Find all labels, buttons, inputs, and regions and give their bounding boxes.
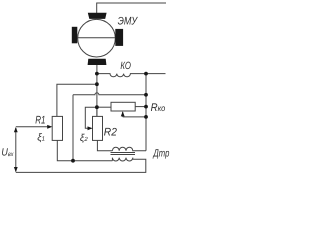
node KO junction bbox=[95, 72, 99, 76]
wire R2 bottom bbox=[97, 140, 112, 150]
transformer Dtr top winding bbox=[112, 147, 146, 151]
arrow Uin up bbox=[14, 127, 18, 132]
node rail-wiper bbox=[144, 115, 148, 119]
wire brush to node A bbox=[96, 65, 98, 117]
svg-text:КО: КО bbox=[120, 60, 131, 72]
svg-text:R1: R1 bbox=[35, 114, 45, 126]
wire Rko right bbox=[135, 106, 146, 108]
label KO bbox=[120, 60, 131, 72]
wire B crossover bbox=[73, 93, 146, 95]
wire R2 branch bbox=[96, 107, 98, 116]
svg-text:ξ2: ξ2 bbox=[80, 133, 88, 144]
arrow Rko wiper bbox=[121, 111, 125, 116]
arrow Uin down bbox=[14, 167, 18, 172]
resistor Rko bbox=[111, 102, 135, 111]
label R2 bbox=[104, 127, 117, 139]
node bottom-lead bbox=[71, 159, 75, 163]
wire right rail bbox=[145, 74, 147, 151]
arrow R2 wiper bbox=[88, 126, 93, 130]
transformer Dtr bottom winding bbox=[16, 158, 146, 173]
resistor R2 bbox=[93, 116, 103, 140]
wire hook R2 wiper bbox=[85, 107, 97, 128]
node rail-KO bbox=[144, 72, 148, 76]
label Uin bbox=[1, 146, 14, 158]
transformer core bbox=[111, 153, 136, 155]
resistor R1 bbox=[52, 116, 62, 140]
label EMU bbox=[118, 15, 138, 27]
wire KO net bbox=[97, 74, 166, 77]
label R1 bbox=[35, 114, 45, 126]
wire B down branch bbox=[72, 95, 74, 161]
svg-text:Rко: Rко bbox=[151, 102, 166, 114]
node rail-Rko bbox=[144, 105, 148, 109]
svg-text:ЭМУ: ЭМУ bbox=[118, 15, 138, 27]
wire R1 bottom bbox=[57, 140, 112, 160]
brush left bbox=[72, 27, 78, 44]
brush right bbox=[115, 29, 123, 46]
svg-text:Дтр: Дтр bbox=[153, 147, 170, 159]
wire Uin vertical bbox=[15, 128, 17, 172]
wire A R1 top bbox=[57, 84, 97, 116]
machine EMU armature circle bbox=[78, 19, 116, 57]
wire Rko wiper bbox=[122, 112, 124, 117]
label xi1 bbox=[37, 133, 45, 144]
svg-text:Uвх: Uвх bbox=[1, 146, 14, 158]
wire node to Rko bbox=[97, 106, 111, 108]
brush top bbox=[88, 13, 107, 19]
label xi2 bbox=[80, 133, 88, 144]
svg-text:ξ1: ξ1 bbox=[37, 133, 45, 144]
svg-text:R2: R2 bbox=[104, 127, 117, 139]
arrow R1 wiper bbox=[47, 125, 52, 129]
brush bottom bbox=[88, 59, 107, 65]
wire EMU brush axis line bbox=[77, 37, 116, 39]
label Dtr bbox=[153, 147, 170, 159]
wire input horizontal bbox=[16, 126, 48, 128]
node Rko junction bbox=[95, 105, 99, 109]
node rail-B bbox=[144, 93, 148, 97]
wire top output stub bbox=[97, 3, 166, 13]
node A junction bbox=[95, 82, 99, 86]
label Rko bbox=[151, 102, 166, 114]
wire wiper to rail bbox=[123, 116, 146, 118]
